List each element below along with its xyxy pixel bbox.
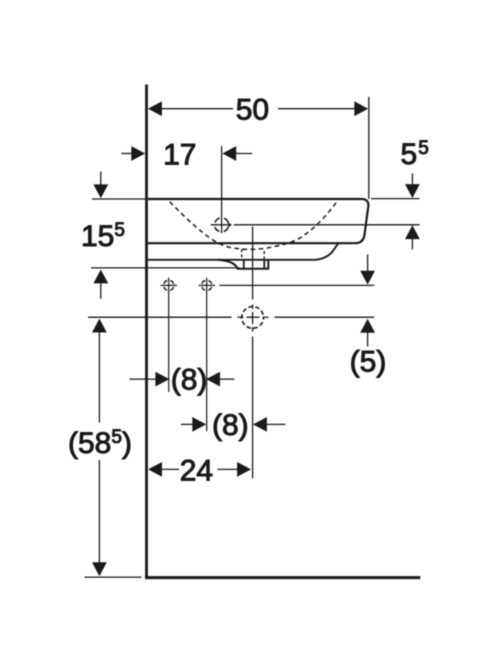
trap drain pipe ticks — [243, 260, 245, 268]
dim (58-5): vertical line — [98, 322, 100, 423]
dim (8) first: left-pointing arrow — [206, 372, 220, 387]
dim (5): top leader — [367, 255, 369, 272]
fixing hole 1: vertical extension line — [168, 278, 170, 392]
tap hole crosshair horizontal — [211, 224, 228, 226]
drain vertical center line — [252, 227, 254, 300]
dim 24: dimension line — [162, 468, 179, 470]
dim (8) second: right leader — [267, 423, 286, 425]
svg-text:24: 24 — [180, 455, 213, 488]
dim 50: right extension line — [368, 97, 370, 199]
dim (8) second: right-pointing arrow — [192, 417, 206, 432]
tap level line y=225 — [234, 224, 420, 226]
dim 5-5: top leader — [411, 174, 413, 186]
trap (siphon housing) — [218, 260, 268, 269]
svg-text:(8): (8) — [212, 409, 249, 442]
tap vertical center line (17 extension) — [221, 146, 223, 233]
reference line y=317.6 — [88, 316, 232, 318]
svg-text:(8): (8) — [171, 364, 208, 397]
dim (8) first: right-pointing arrow — [155, 372, 169, 387]
dim (5): bottom leader — [367, 332, 369, 346]
bowl dashed arc — [170, 202, 337, 250]
fixing hole 2: crosshair horizontal — [199, 284, 215, 286]
fixing hole 2: vertical extension line — [206, 278, 208, 432]
dim 15-5: top leader — [100, 172, 102, 186]
dim (8) first: right leader — [220, 378, 235, 380]
svg-text:(5): (5) — [350, 346, 387, 379]
basin top left extension line — [92, 198, 145, 200]
basin top right extension line — [371, 198, 420, 200]
svg-text:155: 155 — [81, 220, 125, 253]
dim 5-5: up arrow — [405, 225, 420, 239]
fixing hole 2: dashed circle — [202, 280, 212, 290]
drain outlet: dashed circle — [242, 307, 264, 329]
tap hole symbol: dashed circle — [215, 218, 229, 232]
hidden drain funnel dashed lines — [241, 249, 243, 259]
dim 5-5: down arrow — [405, 184, 420, 198]
dim (58-5): up arrow — [92, 319, 107, 333]
dim 15-5: down arrow — [93, 184, 108, 198]
dim 50: dimension line — [162, 108, 234, 110]
fixing hole 1: dashed circle — [164, 280, 174, 290]
dim (8) second: left-pointing arrow — [253, 417, 267, 432]
dim 17: left arrow — [131, 146, 145, 161]
dim 15-5: up arrow — [93, 270, 108, 284]
dim 24: left arrow — [148, 462, 162, 477]
dim (8) first: wall leader — [130, 378, 157, 380]
dim (8) second: left leader — [181, 423, 193, 425]
svg-text:(585): (585) — [68, 427, 132, 460]
underside extension line y=269.4 — [91, 267, 240, 269]
dim 24: right arrow — [237, 462, 251, 477]
dim (5): up arrow — [360, 319, 375, 333]
holes level line y=285.4 — [219, 284, 374, 286]
dim 50: right arrow — [354, 101, 368, 116]
dim 17: right leader — [236, 153, 253, 155]
dim 50: left arrow — [148, 101, 162, 116]
dim 15-5: bottom leader — [100, 283, 102, 299]
floor tick line — [85, 576, 142, 578]
svg-text:55: 55 — [401, 138, 429, 171]
floor line — [145, 576, 420, 579]
svg-text:50: 50 — [236, 93, 269, 126]
basin underside contour — [148, 243, 339, 260]
dim (5): down arrow — [360, 271, 375, 285]
dim 5-5: bottom leader — [411, 239, 413, 250]
fixing hole 1: crosshair horizontal — [161, 284, 177, 286]
dim 17: left leader — [121, 153, 132, 155]
basin outline (top, right edge, bottom) — [148, 199, 369, 243]
tap hole small arrowhead — [228, 222, 232, 227]
dim 17: right arrow — [222, 146, 236, 161]
svg-text:17: 17 — [163, 138, 196, 171]
dim (58-5): down arrow — [92, 562, 107, 576]
wall line — [145, 85, 148, 580]
